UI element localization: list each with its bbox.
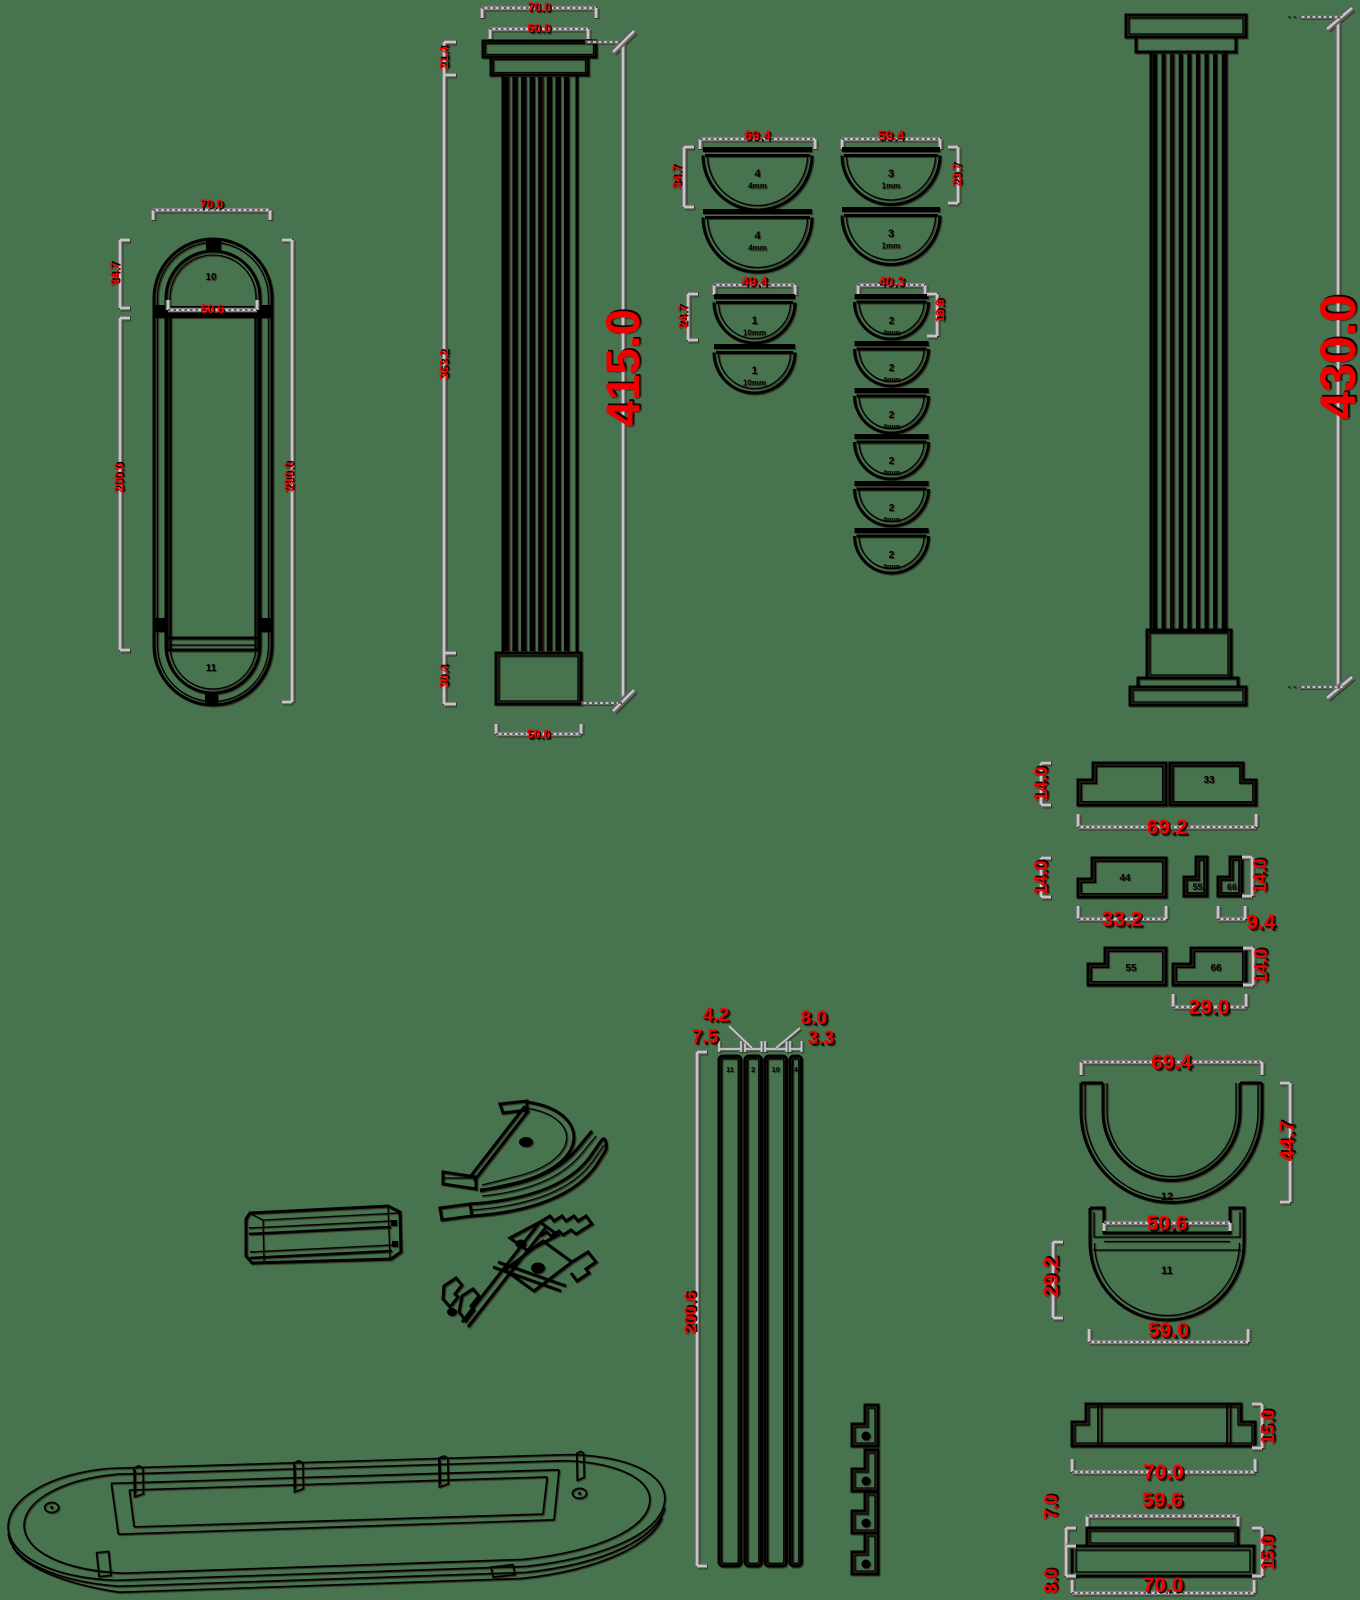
dimension 15.0 base profile bbox=[1252, 1528, 1262, 1576]
half-disc part 3 first bbox=[842, 147, 940, 152]
dimension 50.0 column A base width bbox=[496, 724, 581, 734]
dimension 14.0 row2 right bbox=[1242, 857, 1252, 896]
half-disc part 3 second bbox=[842, 207, 940, 212]
svg-text:4.2: 4.2 bbox=[703, 1005, 729, 1026]
column A abacus bbox=[483, 41, 596, 57]
svg-text:11: 11 bbox=[1161, 1265, 1173, 1277]
leader line 8.0 bbox=[776, 1028, 800, 1048]
column B fluted shaft bbox=[1151, 52, 1226, 631]
svg-text:8.0: 8.0 bbox=[1041, 1568, 1061, 1593]
svg-text:33.2: 33.2 bbox=[1102, 908, 1143, 931]
dimension 19.9 part2 height bbox=[927, 294, 937, 336]
svg-text:200.6: 200.6 bbox=[681, 1292, 700, 1335]
iso curved band bbox=[440, 1139, 606, 1220]
plate side tab left upper bbox=[154, 305, 167, 318]
svg-text:50.0: 50.0 bbox=[527, 727, 551, 741]
half-disc part 2 number 3 bbox=[855, 388, 929, 393]
column B cap step bbox=[1136, 37, 1236, 52]
svg-text:70.0: 70.0 bbox=[1143, 1574, 1184, 1597]
svg-text:14.0: 14.0 bbox=[1031, 766, 1051, 801]
svg-text:50.6: 50.6 bbox=[1147, 1212, 1188, 1235]
svg-text:4mm: 4mm bbox=[748, 244, 767, 253]
svg-text:363.2: 363.2 bbox=[437, 350, 451, 380]
corner piece 1 bbox=[852, 1405, 878, 1446]
dimension 14.0 row2 bbox=[1041, 858, 1051, 897]
base profile cross-section bbox=[1072, 1528, 1254, 1576]
svg-text:50.6: 50.6 bbox=[201, 302, 225, 316]
svg-text:44.7: 44.7 bbox=[1276, 1121, 1299, 1162]
dimension 60.0 column A echinus width bbox=[490, 29, 588, 39]
svg-text:69.4: 69.4 bbox=[744, 128, 771, 143]
svg-text:14.0: 14.0 bbox=[1031, 860, 1051, 895]
svg-text:290.0: 290.0 bbox=[282, 462, 296, 492]
svg-text:29.0: 29.0 bbox=[1189, 996, 1230, 1019]
svg-text:2: 2 bbox=[889, 550, 895, 561]
svg-text:70.0: 70.0 bbox=[1143, 1461, 1184, 1484]
column B cap slab bbox=[1126, 15, 1246, 37]
svg-text:1mm: 1mm bbox=[882, 182, 901, 191]
svg-text:15.0: 15.0 bbox=[1258, 1409, 1278, 1444]
dimension 430.0 column B total height bbox=[1336, 19, 1341, 688]
dimension 69.4 disc group bbox=[700, 139, 815, 149]
svg-text:7.0: 7.0 bbox=[1041, 1494, 1061, 1519]
strip piece 4 bbox=[790, 1056, 802, 1566]
svg-text:21.4: 21.4 bbox=[437, 46, 451, 70]
dimension 49.4 small disc group bbox=[714, 285, 795, 295]
dimension 29.0 row3 width bbox=[1173, 994, 1246, 1007]
dimension 70.0 base profile bbox=[1072, 1580, 1254, 1593]
dimension 8.0 base profile bbox=[1066, 1546, 1076, 1576]
dimension 9.4 row2 L width bbox=[1218, 906, 1245, 919]
plate inner slot rectangle bbox=[168, 306, 258, 650]
svg-text:59.6: 59.6 bbox=[1142, 1489, 1183, 1512]
dimension 59.6 base profile top bbox=[1087, 1516, 1238, 1529]
plate apex tab top bbox=[206, 239, 221, 251]
svg-text:10mm: 10mm bbox=[743, 379, 766, 388]
svg-text:430.0: 430.0 bbox=[1310, 294, 1360, 419]
L piece 66 row2 bbox=[1218, 857, 1242, 896]
corner piece 3 bbox=[852, 1492, 878, 1533]
strip piece 3 bbox=[765, 1056, 787, 1566]
dimension 69.4 ring width bbox=[1081, 1062, 1262, 1075]
dimension 200.6 strips height bbox=[697, 1052, 707, 1566]
cap profile cross-section bbox=[1072, 1404, 1255, 1446]
svg-text:15.0: 15.0 bbox=[1258, 1535, 1278, 1570]
svg-text:59.4: 59.4 bbox=[878, 128, 905, 143]
dimension 59.4 disc group right bbox=[842, 139, 940, 149]
half-disc part 2 number 2 bbox=[855, 341, 929, 346]
dimension 33.2 row2 width bbox=[1078, 906, 1166, 919]
column B base step bbox=[1138, 678, 1238, 687]
half-disc part 1 first bbox=[714, 294, 795, 299]
column A fluted shaft bbox=[503, 75, 577, 653]
strip width brackets bbox=[719, 1041, 741, 1052]
dimension 14.0 row1 bbox=[1041, 763, 1051, 805]
svg-text:1: 1 bbox=[751, 365, 757, 377]
svg-text:1: 1 bbox=[751, 315, 757, 327]
dimension 200.0 plate slot height bbox=[120, 318, 130, 650]
svg-text:10: 10 bbox=[772, 1065, 780, 1074]
dimension 50.6 slot width bbox=[168, 300, 257, 310]
plate side tab left lower bbox=[154, 618, 167, 632]
half-disc part 4 first bbox=[703, 147, 812, 152]
corner piece 4 bbox=[852, 1533, 878, 1574]
svg-text:2: 2 bbox=[889, 503, 895, 514]
svg-text:4mm: 4mm bbox=[883, 562, 901, 571]
svg-text:2: 2 bbox=[889, 456, 895, 467]
svg-text:2: 2 bbox=[889, 316, 895, 327]
svg-text:29.2: 29.2 bbox=[1040, 1257, 1063, 1298]
dimension 15.0 cap profile bbox=[1252, 1404, 1262, 1448]
svg-text:60.0: 60.0 bbox=[527, 21, 551, 35]
svg-text:49.4: 49.4 bbox=[741, 274, 768, 289]
svg-text:59.0: 59.0 bbox=[1148, 1319, 1189, 1342]
dimension 34.7 disc height bbox=[684, 147, 694, 207]
svg-text:14.0: 14.0 bbox=[1250, 858, 1270, 893]
svg-text:4mm: 4mm bbox=[883, 328, 901, 337]
svg-text:34.7: 34.7 bbox=[670, 165, 684, 189]
svg-text:19.9: 19.9 bbox=[933, 299, 947, 323]
column A echinus bbox=[491, 57, 588, 75]
svg-text:3.3: 3.3 bbox=[808, 1028, 834, 1049]
svg-text:33: 33 bbox=[1203, 775, 1215, 786]
dimension 415.0 column A total height bbox=[621, 42, 626, 701]
dimension 59.0 disc 11 width bbox=[1089, 1329, 1248, 1342]
svg-text:415.0: 415.0 bbox=[596, 309, 649, 427]
column B base block bbox=[1147, 630, 1231, 678]
svg-text:4mm: 4mm bbox=[883, 375, 901, 384]
dimension 290.0 plate total height bbox=[282, 240, 292, 702]
svg-text:9.4: 9.4 bbox=[1246, 911, 1276, 934]
dimension 14.0 row3 bbox=[1243, 948, 1253, 985]
step piece pair row1 left bbox=[1078, 763, 1166, 805]
svg-text:4mm: 4mm bbox=[748, 182, 767, 191]
half-disc part 2 number 4 bbox=[855, 434, 929, 439]
C-ring part 12 bbox=[1081, 1083, 1262, 1203]
dimension 70.0 plate width bbox=[153, 210, 270, 220]
dimension 24.7 small disc height bbox=[688, 294, 698, 340]
svg-text:70.0: 70.0 bbox=[527, 0, 551, 14]
svg-text:29.7: 29.7 bbox=[950, 163, 964, 187]
svg-text:40.3: 40.3 bbox=[878, 274, 905, 289]
dimension 29.7 part3 height bbox=[948, 147, 958, 203]
half-disc part 1 second bbox=[714, 344, 795, 349]
step piece pair row1 right (label 33) bbox=[1170, 763, 1256, 805]
iso half-round cap plate bbox=[443, 1101, 596, 1196]
plate side tab right upper bbox=[259, 305, 272, 318]
iso oval base tray bbox=[7, 1450, 667, 1595]
svg-text:24.7: 24.7 bbox=[676, 305, 690, 329]
dimension 44.7 ring height bbox=[1280, 1083, 1290, 1202]
step piece 66 row3 bbox=[1173, 948, 1246, 985]
svg-text:14.0: 14.0 bbox=[1251, 948, 1271, 983]
svg-text:7.5: 7.5 bbox=[692, 1027, 719, 1048]
step piece 55 row3 bbox=[1088, 948, 1166, 985]
svg-text:2: 2 bbox=[889, 363, 895, 374]
svg-text:34.7: 34.7 bbox=[108, 262, 122, 286]
half disc part 11 with yoke bbox=[1090, 1208, 1244, 1320]
svg-text:10: 10 bbox=[205, 272, 217, 283]
svg-text:12: 12 bbox=[1161, 1191, 1173, 1203]
svg-text:3: 3 bbox=[888, 228, 894, 240]
svg-text:44: 44 bbox=[1119, 873, 1131, 884]
dimension 69.2 row1 width bbox=[1078, 814, 1256, 827]
step piece 44 row2 bbox=[1078, 858, 1166, 897]
svg-text:11: 11 bbox=[726, 1065, 734, 1074]
dimension 70.0 cap profile bbox=[1072, 1459, 1255, 1472]
part plate front view: outer stadium outline bbox=[154, 239, 272, 705]
dimension 50.6 yoke width bbox=[1104, 1223, 1230, 1231]
svg-text:8.0: 8.0 bbox=[801, 1008, 827, 1029]
svg-text:1mm: 1mm bbox=[882, 242, 901, 251]
dimension 7.0 base profile bbox=[1066, 1528, 1076, 1546]
dimension 34.7 plate arch height bbox=[120, 240, 130, 308]
svg-text:4mm: 4mm bbox=[883, 422, 901, 431]
svg-text:4mm: 4mm bbox=[883, 468, 901, 477]
svg-text:70.0: 70.0 bbox=[200, 197, 224, 211]
iso stepped bracket assembly bbox=[443, 1216, 596, 1327]
plate side tab right lower bbox=[259, 618, 272, 632]
svg-text:2: 2 bbox=[889, 410, 895, 421]
svg-text:4mm: 4mm bbox=[883, 515, 901, 524]
dimension 70.0 column A abacus width bbox=[482, 8, 596, 18]
svg-text:3: 3 bbox=[888, 168, 894, 180]
L piece 55 row2 bbox=[1184, 857, 1207, 896]
svg-text:4: 4 bbox=[754, 230, 761, 242]
half-disc part 2 number 6 bbox=[855, 528, 929, 533]
left dimension chain column A: 21.4 / 363.2 / 30.4 bbox=[444, 42, 456, 704]
half-disc part 2 number 5 bbox=[855, 481, 929, 486]
dimension 40.3 part2 group bbox=[858, 285, 925, 295]
svg-text:2: 2 bbox=[751, 1065, 755, 1074]
svg-text:69.4: 69.4 bbox=[1151, 1051, 1192, 1074]
strip piece 1 bbox=[719, 1056, 741, 1566]
svg-text:200.0: 200.0 bbox=[112, 463, 126, 493]
half-disc part 2 number 1 bbox=[855, 294, 929, 299]
plate apex tab bottom bbox=[205, 693, 218, 705]
svg-text:55: 55 bbox=[1192, 882, 1202, 892]
svg-text:30.4: 30.4 bbox=[437, 665, 451, 689]
leader line 4.2 bbox=[729, 1026, 752, 1048]
column A base block bbox=[496, 653, 581, 704]
iso channel bar bbox=[246, 1206, 401, 1263]
svg-text:66: 66 bbox=[1227, 882, 1237, 892]
half-disc part 4 second bbox=[703, 209, 812, 214]
svg-text:69.2: 69.2 bbox=[1147, 816, 1188, 839]
corner piece 2 bbox=[852, 1450, 878, 1491]
svg-text:11: 11 bbox=[206, 663, 217, 674]
dimension 29.2 disc 11 bbox=[1053, 1242, 1063, 1318]
svg-text:4: 4 bbox=[754, 168, 761, 180]
svg-text:55: 55 bbox=[1125, 963, 1137, 974]
svg-text:66: 66 bbox=[1210, 963, 1222, 974]
svg-text:10mm: 10mm bbox=[743, 329, 766, 338]
strip piece 2 bbox=[745, 1056, 762, 1566]
column B plinth bbox=[1130, 687, 1246, 705]
